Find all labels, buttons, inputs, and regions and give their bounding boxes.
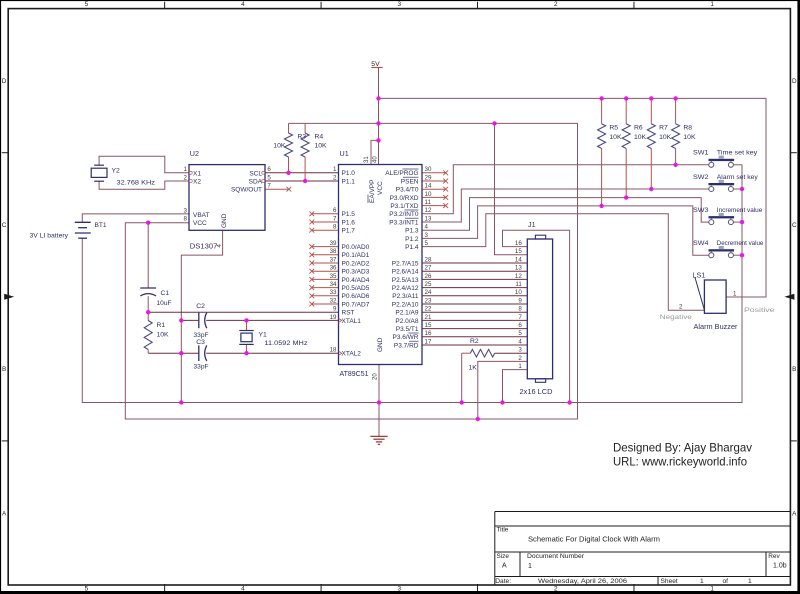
- svg-text:35: 35: [330, 273, 337, 280]
- svg-text:3: 3: [184, 207, 188, 214]
- svg-text:6: 6: [518, 322, 522, 329]
- svg-text:9: 9: [518, 297, 522, 304]
- svg-text:PSEN: PSEN: [401, 178, 419, 185]
- svg-text:21: 21: [425, 314, 432, 321]
- wire SQW/OUT no-connect stub: [265, 188, 289, 190]
- svg-text:3: 3: [398, 586, 402, 593]
- svg-text:C: C: [792, 222, 797, 229]
- svg-text:Alarm set key: Alarm set key: [717, 174, 759, 181]
- svg-text:24: 24: [425, 289, 432, 296]
- wire SCL net U2 to U1 P1.0: [265, 172, 339, 174]
- resistor R4: [301, 133, 309, 157]
- capacitor C3: [198, 345, 200, 361]
- svg-text:15: 15: [425, 322, 432, 329]
- svg-text:P0.0/AD0: P0.0/AD0: [342, 244, 370, 251]
- svg-text:Negative: Negative: [660, 314, 693, 321]
- wire J1 pin1 to GND rail: [503, 370, 528, 403]
- svg-text:Rev: Rev: [768, 553, 780, 560]
- svg-text:5: 5: [85, 586, 89, 593]
- svg-text:P0.1/AD1: P0.1/AD1: [342, 252, 370, 259]
- svg-text:ALE/PROG: ALE/PROG: [385, 170, 418, 177]
- svg-text:SDA: SDA: [249, 179, 263, 186]
- U1 top pin names EA/VPP and VCC: [368, 180, 376, 203]
- wire P1.2 to SW4: [422, 206, 709, 255]
- svg-text:P0.6/AD6: P0.6/AD6: [342, 293, 370, 300]
- svg-text:B: B: [2, 366, 6, 373]
- wire R6 bottom lead: [625, 149, 627, 198]
- svg-text:Alarm Buzzer: Alarm Buzzer: [694, 324, 739, 331]
- wire P3.2/INT0 to SW1 row: [422, 165, 709, 214]
- svg-text:11: 11: [425, 199, 432, 206]
- wire J1 pin2 to VCC bottom rail: [478, 361, 528, 419]
- svg-text:11.0592 MHz: 11.0592 MHz: [265, 340, 308, 347]
- wire VCC rail: [125, 123, 577, 419]
- svg-text:XTAL2: XTAL2: [342, 351, 362, 358]
- svg-text:Time set key: Time set key: [717, 150, 758, 157]
- svg-text:4: 4: [518, 338, 522, 345]
- svg-text:EA/VPP: EA/VPP: [369, 180, 376, 203]
- svg-text:GND: GND: [377, 337, 384, 352]
- svg-text:P1.1: P1.1: [342, 178, 356, 185]
- svg-text:P3.4/T0: P3.4/T0: [396, 187, 419, 194]
- wire EA/VPP pin loop to VCC: [371, 140, 379, 164]
- wire P3.3/INT1 to SW2 row: [422, 189, 709, 222]
- svg-text:P0.5/AD5: P0.5/AD5: [342, 285, 370, 292]
- ground symbol: [370, 435, 387, 437]
- svg-text:P1.0: P1.0: [342, 170, 356, 177]
- svg-text:C: C: [2, 222, 7, 229]
- svg-text:1: 1: [700, 578, 704, 585]
- push switch SW3: [709, 216, 735, 218]
- svg-text:P1.4: P1.4: [405, 244, 419, 251]
- svg-text:39: 39: [330, 240, 337, 247]
- svg-text:20: 20: [372, 373, 378, 380]
- svg-text:AT89C51: AT89C51: [340, 371, 369, 378]
- svg-text:P3.6/WR: P3.6/WR: [392, 334, 418, 341]
- svg-text:A: A: [502, 562, 507, 569]
- svg-text:P2.3/A11: P2.3/A11: [392, 293, 419, 300]
- svg-text:15: 15: [515, 248, 522, 255]
- svg-text:R4: R4: [315, 134, 324, 141]
- battery BT1: [75, 221, 91, 223]
- svg-text:7: 7: [267, 183, 271, 190]
- junction dots: [286, 171, 290, 175]
- wire GND rail: [82, 165, 742, 403]
- svg-text:X1: X1: [193, 170, 201, 177]
- wire VBAT net: [82, 214, 189, 222]
- svg-text:B: B: [792, 366, 796, 373]
- svg-text:22: 22: [425, 306, 432, 313]
- wire R4 leads: [304, 123, 306, 133]
- svg-text:12: 12: [515, 273, 522, 280]
- svg-text:P0.3/AD3: P0.3/AD3: [342, 269, 370, 276]
- svg-text:16: 16: [515, 240, 522, 247]
- svg-text:17: 17: [425, 338, 432, 345]
- title block frame: [495, 511, 791, 513]
- svg-text:DS1307: DS1307: [190, 244, 218, 251]
- svg-text:R2: R2: [470, 338, 479, 345]
- svg-text:P3.7/RD: P3.7/RD: [394, 342, 419, 349]
- svg-text:RST: RST: [342, 310, 355, 317]
- svg-text:D: D: [792, 78, 797, 85]
- svg-text:SW1: SW1: [693, 150, 709, 157]
- svg-text:5: 5: [425, 240, 429, 247]
- svg-text:3: 3: [425, 232, 429, 239]
- frame mid-edge arrows: [4, 294, 14, 300]
- svg-text:P3.2/INT0: P3.2/INT0: [389, 211, 419, 218]
- U1 right no-connect pin stubs: [422, 172, 446, 174]
- svg-text:Size: Size: [497, 553, 510, 560]
- svg-text:P2.1/A9: P2.1/A9: [395, 310, 419, 317]
- svg-text:36: 36: [330, 265, 337, 272]
- wire XTAL1 row: [181, 319, 199, 321]
- svg-text:J1: J1: [528, 220, 536, 229]
- svg-text:1: 1: [733, 290, 737, 297]
- wire P1.3 to SW3: [422, 198, 709, 231]
- svg-text:33pF: 33pF: [194, 363, 209, 370]
- wire SDA net U2 to U1 P1.1: [265, 180, 339, 182]
- svg-text:Title: Title: [497, 527, 509, 534]
- resistor R3: [285, 133, 293, 157]
- svg-text:19: 19: [330, 314, 337, 321]
- svg-text:P0.2/AD2: P0.2/AD2: [342, 260, 370, 267]
- svg-text:32.768 KHz: 32.768 KHz: [117, 180, 156, 187]
- svg-text:16: 16: [425, 330, 432, 337]
- svg-text:LS1: LS1: [693, 271, 706, 280]
- svg-text:14: 14: [515, 256, 522, 263]
- svg-text:P3.5/T1: P3.5/T1: [396, 326, 419, 333]
- svg-text:8: 8: [184, 216, 188, 223]
- svg-text:3: 3: [518, 347, 522, 354]
- svg-text:U2: U2: [190, 149, 199, 158]
- svg-text:P3.3/INT1: P3.3/INT1: [389, 219, 419, 226]
- svg-text:28: 28: [425, 256, 432, 263]
- buzzer LS1: [704, 280, 726, 313]
- svg-text:30: 30: [425, 166, 432, 173]
- svg-text:1: 1: [710, 1, 714, 8]
- U1 XTAL pin input arrows: [339, 318, 342, 322]
- svg-text:of: of: [723, 578, 729, 585]
- svg-text:7: 7: [333, 215, 337, 222]
- svg-text:1: 1: [184, 166, 188, 173]
- svg-text:10K: 10K: [315, 143, 328, 150]
- svg-text:P3.1/TXD: P3.1/TXD: [390, 203, 418, 210]
- svg-text:33: 33: [330, 289, 337, 296]
- svg-text:A: A: [2, 510, 7, 517]
- svg-text:C3: C3: [196, 339, 205, 346]
- svg-text:Document Number: Document Number: [527, 553, 585, 560]
- svg-text:14: 14: [425, 183, 432, 190]
- capacitor C2: [198, 313, 200, 329]
- svg-text:P1.6: P1.6: [342, 219, 356, 226]
- wire U1 P2/P3 bus to J1 LCD: [422, 262, 527, 264]
- svg-text:3: 3: [398, 1, 402, 8]
- capacitor C1: [140, 287, 156, 289]
- svg-text:5: 5: [518, 330, 522, 337]
- svg-text:5: 5: [85, 1, 89, 8]
- svg-text:2: 2: [679, 304, 683, 311]
- svg-text:P1.5: P1.5: [342, 211, 356, 218]
- svg-text:5V: 5V: [371, 61, 380, 68]
- wire R1 leads: [147, 312, 149, 320]
- svg-text:1.0b: 1.0b: [773, 562, 787, 569]
- push switch SW1: [709, 159, 735, 161]
- svg-text:P0.7/AD7: P0.7/AD7: [342, 301, 370, 308]
- svg-text:4: 4: [241, 1, 245, 8]
- svg-text:26: 26: [425, 273, 432, 280]
- svg-text:3V LI battery: 3V LI battery: [30, 233, 69, 240]
- svg-text:2: 2: [184, 174, 188, 181]
- connector J1 2x16 LCD: [527, 239, 552, 379]
- svg-text:P2.4/A12: P2.4/A12: [392, 285, 419, 292]
- svg-text:Y1: Y1: [259, 331, 268, 338]
- wire J1 pin15 to VCC rail: [495, 123, 528, 254]
- crystal Y2: [94, 164, 104, 166]
- svg-text:2: 2: [554, 586, 558, 593]
- wire 5V stem: [378, 68, 380, 165]
- svg-text:10K: 10K: [273, 143, 286, 150]
- svg-text:R8: R8: [683, 125, 692, 132]
- svg-text:25: 25: [425, 281, 432, 288]
- svg-text:10: 10: [425, 191, 432, 198]
- svg-text:P2.0/A8: P2.0/A8: [395, 318, 419, 325]
- svg-text:SCL: SCL: [249, 170, 262, 177]
- svg-text:R5: R5: [609, 125, 618, 132]
- svg-text:1K: 1K: [469, 365, 478, 372]
- resistor R2: [470, 349, 494, 357]
- svg-text:Schematic For Digital Clock Wi: Schematic For Digital Clock With Alarm: [528, 535, 660, 544]
- crystal Y1: [239, 330, 253, 332]
- svg-text:Increment value: Increment value: [717, 207, 763, 214]
- svg-text:10: 10: [515, 289, 522, 296]
- wire J1 pin3 through R2: [495, 352, 528, 354]
- svg-text:4: 4: [425, 224, 429, 231]
- svg-text:Wednesday, April 26, 2006: Wednesday, April 26, 2006: [538, 578, 627, 585]
- svg-text:A: A: [792, 510, 797, 517]
- svg-text:VCC: VCC: [193, 220, 207, 227]
- svg-text:2: 2: [554, 1, 558, 8]
- push switch SW2: [709, 183, 735, 185]
- wire J1 pin16 to GND rail loop: [503, 230, 570, 402]
- svg-text:2: 2: [518, 355, 522, 362]
- svg-text:P1.3: P1.3: [405, 228, 419, 235]
- svg-text:10K: 10K: [634, 134, 647, 141]
- U2 pin bubbles: [189, 171, 192, 174]
- wire R5-R8 top leads: [601, 98, 603, 123]
- svg-text:37: 37: [330, 256, 337, 263]
- wire RST row: [148, 311, 338, 313]
- svg-text:7: 7: [518, 314, 522, 321]
- 5V power symbol: [371, 67, 382, 69]
- svg-text:Y2: Y2: [112, 168, 121, 175]
- svg-text:R1: R1: [157, 322, 166, 329]
- svg-text:VCC: VCC: [377, 181, 384, 195]
- svg-text:10K: 10K: [609, 134, 622, 141]
- svg-text:8: 8: [333, 224, 337, 231]
- svg-text:R6: R6: [634, 125, 643, 132]
- resistor R8: [672, 124, 680, 149]
- svg-text:C2: C2: [196, 303, 205, 310]
- svg-text:4: 4: [241, 586, 245, 593]
- wire VCC to C1 and RST net: [147, 223, 149, 288]
- svg-text:SQW/OUT: SQW/OUT: [231, 187, 262, 194]
- resistor R1: [144, 321, 152, 350]
- svg-text:23: 23: [425, 297, 432, 304]
- svg-text:5: 5: [267, 174, 271, 181]
- svg-text:Positive: Positive: [744, 307, 775, 314]
- wire R3 leads: [288, 123, 290, 133]
- svg-text:P2.7/A15: P2.7/A15: [392, 260, 419, 267]
- svg-text:U1: U1: [340, 149, 349, 158]
- svg-text:1: 1: [518, 363, 522, 370]
- svg-text:40: 40: [372, 156, 378, 163]
- svg-text:6: 6: [267, 166, 271, 173]
- svg-text:9: 9: [333, 306, 337, 313]
- resistor R5: [598, 124, 606, 149]
- wire XTAL2 row: [148, 352, 199, 354]
- svg-text:P2.6/A14: P2.6/A14: [392, 269, 419, 276]
- svg-text:P2.5/A13: P2.5/A13: [392, 277, 419, 284]
- resistor R6: [622, 124, 630, 149]
- push switch SW4: [709, 249, 735, 251]
- svg-text:31: 31: [364, 156, 370, 163]
- svg-text:VBAT: VBAT: [193, 212, 210, 219]
- svg-text:10K: 10K: [157, 331, 170, 338]
- svg-text:34: 34: [330, 281, 337, 288]
- svg-text:8: 8: [518, 306, 522, 313]
- svg-text:BT1: BT1: [95, 222, 107, 229]
- svg-text:X2: X2: [193, 179, 201, 186]
- svg-text:SW3: SW3: [693, 207, 709, 214]
- svg-text:Designed By: Ajay Bhargav: Designed By: Ajay Bhargav: [613, 442, 752, 455]
- svg-text:P3.0/RXD: P3.0/RXD: [390, 195, 419, 202]
- svg-text:10K: 10K: [659, 134, 672, 141]
- svg-text:GND: GND: [221, 213, 228, 228]
- svg-text:1: 1: [710, 586, 714, 593]
- wire P1.4 to buzzer negative: [422, 214, 704, 310]
- wire U2 GND to ground net: [181, 230, 222, 402]
- wire switch common right vertical stubs: [734, 164, 743, 166]
- svg-text:R7: R7: [659, 125, 668, 132]
- svg-text:33pF: 33pF: [194, 332, 209, 339]
- svg-text:38: 38: [330, 248, 337, 255]
- wire R2 left lead to GND rail: [461, 353, 463, 402]
- svg-text:13: 13: [515, 265, 522, 272]
- svg-text:P0.4/AD4: P0.4/AD4: [342, 277, 370, 284]
- svg-text:1: 1: [748, 578, 752, 585]
- wire 5V rail to buzzer positive: [379, 98, 767, 297]
- svg-text:P1.7: P1.7: [342, 228, 356, 235]
- svg-text:2x16 LCD: 2x16 LCD: [520, 389, 553, 396]
- RTC chip U2 DS1307: [189, 165, 265, 231]
- svg-text:11: 11: [515, 281, 522, 288]
- svg-text:18: 18: [330, 347, 337, 354]
- svg-text:Sheet: Sheet: [661, 578, 678, 585]
- svg-text:SW2: SW2: [693, 174, 709, 181]
- svg-text:Decrement value: Decrement value: [717, 240, 764, 247]
- svg-text:32: 32: [330, 297, 337, 304]
- svg-text:27: 27: [425, 265, 432, 272]
- wire R7 bottom lead: [650, 149, 652, 190]
- svg-text:29: 29: [425, 174, 432, 181]
- frame zone ticks: [164, 2, 166, 9]
- svg-text:SW4: SW4: [693, 240, 709, 247]
- svg-text:P2.2/A10: P2.2/A10: [392, 301, 419, 308]
- svg-text:P1.2: P1.2: [405, 236, 419, 243]
- svg-text:1: 1: [333, 166, 337, 173]
- svg-text:D: D: [2, 78, 7, 85]
- svg-text:10K: 10K: [683, 134, 696, 141]
- svg-text:10uF: 10uF: [157, 300, 172, 307]
- svg-text:13: 13: [425, 215, 432, 222]
- wire crystal Y2 loop top to X1: [99, 156, 189, 173]
- wire R8 bottom lead: [675, 149, 677, 165]
- microcontroller U1 AT89C51: [339, 165, 423, 365]
- svg-text:12: 12: [425, 207, 432, 214]
- wire crystal Y2 loop bottom to X2: [99, 181, 189, 189]
- svg-text:Date:: Date:: [495, 578, 511, 585]
- svg-text:C1: C1: [161, 290, 170, 297]
- svg-text:6: 6: [333, 207, 337, 214]
- resistor R7: [647, 124, 655, 149]
- wire R5 bottom lead: [601, 149, 603, 206]
- svg-text:2: 2: [333, 174, 337, 181]
- svg-text:1: 1: [528, 563, 532, 570]
- wire Y1 leads: [246, 320, 248, 330]
- wire U1 GND pin to ground symbol: [378, 365, 380, 437]
- svg-text:XTAL1: XTAL1: [342, 318, 362, 325]
- U1 left no-connect pin stubs: [312, 213, 339, 215]
- svg-text:URL: www.rickeyworld.info: URL: www.rickeyworld.info: [613, 455, 747, 468]
